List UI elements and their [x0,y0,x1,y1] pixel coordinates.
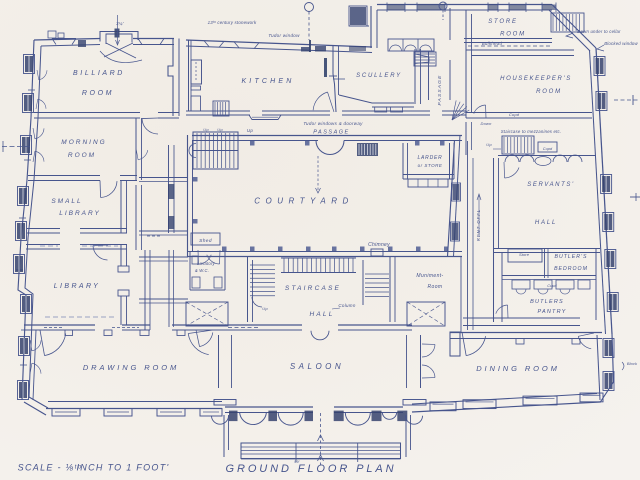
svg-text:Cupd: Cupd [543,147,553,151]
svg-text:13ᵗᵒ century stonework: 13ᵗᵒ century stonework [208,20,257,25]
svg-text:ROOM: ROOM [82,90,114,97]
svg-text:MORNING: MORNING [61,139,106,146]
svg-text:LIBRARY: LIBRARY [54,283,101,290]
svg-text:SCULLERY: SCULLERY [356,73,402,79]
svg-text:Cupd: Cupd [509,112,520,117]
svg-text:Shed: Shed [199,238,212,244]
svg-text:HALL: HALL [535,220,557,226]
svg-text:Lavatory: Lavatory [197,261,215,266]
svg-text:Store: Store [519,252,530,257]
svg-text:BEDROOM: BEDROOM [554,266,588,272]
svg-text:Tudor window: Tudor window [268,33,300,38]
svg-text:SCALE - ⅛ᵗᵒ: SCALE - ⅛ᵗᵒ [18,463,83,473]
svg-text:Column: Column [338,303,356,308]
svg-text:ROOM: ROOM [68,152,96,159]
svg-text:Up: Up [217,127,223,132]
svg-text:Down: Down [480,121,492,126]
svg-text:Blocked window: Blocked window [604,41,638,46]
svg-text:ROOM: ROOM [536,89,562,95]
svg-text:Room: Room [428,284,443,290]
svg-text:Cupd: Cupd [547,284,557,288]
svg-text:Up: Up [262,306,268,311]
svg-text:SERVANTS': SERVANTS' [527,182,574,188]
svg-text:& W.C.: & W.C. [195,268,209,273]
svg-text:SALOON: SALOON [290,362,344,371]
svg-text:Down under to cellar: Down under to cellar [577,29,621,34]
svg-text:Bulkhead: Bulkhead [482,41,503,46]
svg-text:Muniment-: Muniment- [416,273,443,279]
svg-text:Chimney: Chimney [368,242,390,248]
svg-text:ROOM: ROOM [500,32,526,38]
svg-text:GROUND FLOOR PLAN: GROUND FLOOR PLAN [226,463,397,475]
svg-text:SMALL: SMALL [51,198,82,205]
svg-text:BUTLERS: BUTLERS [530,299,564,305]
svg-text:Up: Up [247,128,253,133]
svg-text:Tudor windows & doorway: Tudor windows & doorway [303,121,363,126]
svg-text:RENT OFFL: RENT OFFL [476,209,481,241]
svg-text:BILLIARD: BILLIARD [73,70,125,77]
svg-text:HALL: HALL [309,311,334,318]
svg-text:PASSAGE: PASSAGE [313,130,349,136]
svg-text:Up: Up [486,142,492,147]
svg-text:PANTRY: PANTRY [538,309,567,315]
svg-text:BUTLER'S: BUTLER'S [555,254,588,260]
svg-text:INCH TO 1 FOOT': INCH TO 1 FOOT' [76,463,169,473]
svg-text:DRAWING ROOM: DRAWING ROOM [83,363,179,372]
svg-text:LARDER: LARDER [417,155,442,161]
svg-text:LIBRARY: LIBRARY [59,210,101,217]
svg-text:COURTYARD: COURTYARD [254,197,354,206]
svg-text:Staircase to mezzanines etc.: Staircase to mezzanines etc. [501,129,562,134]
svg-text:STAIRCASE: STAIRCASE [285,285,341,292]
svg-text:PASSAGE: PASSAGE [437,75,443,106]
svg-text:DINING ROOM: DINING ROOM [476,364,560,373]
svg-text:STORE: STORE [488,19,518,25]
svg-text:KITCHEN: KITCHEN [241,78,294,85]
svg-text:HOUSEKEEPER'S: HOUSEKEEPER'S [500,76,572,82]
svg-text:Block: Block [627,361,638,366]
svg-text:Up: Up [203,127,209,132]
svg-text:or STORE: or STORE [418,163,443,168]
